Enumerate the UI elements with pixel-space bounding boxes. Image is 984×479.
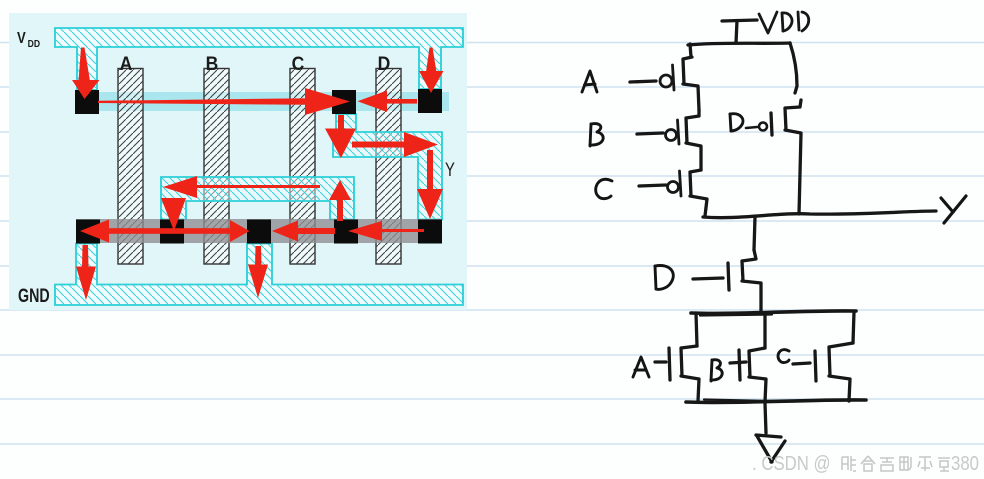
- label B (pmos): [590, 124, 603, 146]
- label C (pmos): [596, 179, 612, 198]
- arrow B3 down to GND: [248, 246, 268, 298]
- svg-text:V: V: [17, 30, 26, 47]
- arrow B4 to B3: [272, 221, 335, 242]
- poly column D: [376, 69, 401, 265]
- arrow VDD to T1: [72, 48, 100, 100]
- label GND: [18, 285, 50, 306]
- arrow right in Z bar: [352, 132, 438, 157]
- svg-text:A: A: [120, 52, 133, 74]
- contact B4: [334, 220, 358, 244]
- top rail wire: [688, 43, 790, 45]
- label A (nmos): [633, 357, 649, 377]
- VDD rail with contact tabs: [55, 28, 463, 90]
- label Y (layout): [445, 159, 455, 180]
- VDD power symbol: [722, 20, 757, 43]
- contact B3: [247, 220, 271, 244]
- label C: [292, 52, 305, 74]
- svg-text:. CSDN @: . CSDN @: [752, 452, 831, 475]
- label C (nmos, small): [778, 350, 789, 363]
- p-diffusion band (top): [84, 92, 449, 111]
- pmos D drain wire: [790, 43, 797, 93]
- svg-text:DD: DD: [28, 38, 40, 50]
- nmos A gate bar: [669, 348, 670, 380]
- svg-text:B: B: [206, 52, 219, 74]
- poly column A: [118, 69, 143, 265]
- mid n-diffusion bar with two down tabs: [161, 177, 354, 220]
- arrow T1 to T2: [98, 88, 350, 115]
- contact B1: [76, 220, 100, 244]
- label Y (output): [941, 196, 966, 223]
- nmos B drain wire: [763, 313, 766, 348]
- pmos D gate bar: [771, 113, 772, 135]
- label VDD: [17, 30, 40, 50]
- Y output Z-shaped wire (stub from T2, horizontal bar, right vertical bar): [333, 114, 442, 220]
- arrow left at mid bar end: [163, 176, 320, 198]
- nmos D channel: [742, 250, 761, 312]
- label D: [378, 52, 391, 74]
- nmos B channel: [749, 348, 766, 402]
- VDD handwritten label: [759, 12, 809, 33]
- contact T1: [75, 90, 99, 114]
- arrow VDD to T3: [419, 48, 444, 94]
- nmos A channel: [681, 346, 699, 401]
- pmos C channel: [690, 170, 707, 216]
- layout diagram panel background: [9, 13, 467, 310]
- pmos B channel: [686, 110, 701, 170]
- nmos B gate bar: [739, 350, 740, 380]
- label B: [206, 52, 219, 74]
- nmos D gate bar: [728, 263, 729, 290]
- label D (pmos): [730, 114, 743, 131]
- svg-text:GND: GND: [18, 285, 50, 306]
- CSDN watermark: [752, 452, 979, 475]
- pmos A source wire: [690, 44, 691, 57]
- nmos C drain wire: [853, 312, 854, 343]
- pmos B gate bubble d: [666, 120, 680, 144]
- arrow T3 to T2: [358, 91, 418, 113]
- pmos A channel: [683, 57, 699, 110]
- ground stem: [765, 403, 766, 433]
- pmos A gate lead: [630, 81, 656, 82]
- poly column B: [204, 69, 229, 265]
- svg-text:D: D: [378, 52, 391, 74]
- ground symbol triangle: [756, 435, 785, 462]
- pmos C gate bubble d: [668, 171, 682, 196]
- svg-text:Y: Y: [445, 159, 455, 180]
- arrow down into B2: [161, 198, 186, 231]
- arrow B1 down to GND: [76, 245, 96, 300]
- nmos A drain wire: [696, 313, 697, 346]
- parallel block bottom rail: [686, 400, 866, 403]
- wire Y to nmos D: [754, 217, 755, 250]
- svg-text:380: 380: [951, 452, 979, 475]
- nmos C gate lead: [793, 363, 810, 364]
- pmos D channel: [785, 100, 801, 214]
- contact T2: [332, 90, 356, 114]
- nmos A gate lead: [655, 360, 666, 363]
- double arrow B1 to B3: [80, 220, 250, 243]
- label A (pmos): [582, 71, 597, 92]
- nmos B gate lead: [730, 362, 746, 363]
- label B (nmos): [711, 360, 722, 381]
- red euler-path arrows: [72, 48, 444, 301]
- contact T3: [418, 89, 442, 113]
- GND rail with contact tabs: [55, 244, 463, 306]
- pmos A gate bubble d: [660, 65, 674, 90]
- output Y wire: [703, 211, 936, 218]
- svg-text:C: C: [292, 52, 305, 74]
- layout text labels: [17, 30, 455, 307]
- contact B2: [160, 220, 184, 244]
- nmos C gate bar: [815, 351, 816, 381]
- label A: [120, 52, 133, 74]
- parallel block top rail: [691, 311, 856, 316]
- nmos D gate lead: [693, 278, 723, 279]
- arrow B4 up to mid bar: [329, 180, 351, 221]
- metal1 gray bar (bottom row): [76, 219, 442, 243]
- fake CJK watermark glyphs: [842, 456, 950, 471]
- pmos B gate lead: [637, 133, 663, 134]
- contact B5: [418, 220, 442, 244]
- pmos D gate bubble: [746, 123, 767, 131]
- poly column C: [290, 69, 315, 265]
- nmos C channel: [829, 343, 853, 401]
- arrow T2 down: [325, 115, 356, 158]
- arrow B5 to B4: [348, 221, 424, 241]
- pmos C gate lead: [639, 185, 666, 186]
- schematic handwritten labels: [582, 71, 966, 381]
- label D (nmos): [655, 265, 673, 289]
- arrow down right bar to B5: [417, 150, 443, 219]
